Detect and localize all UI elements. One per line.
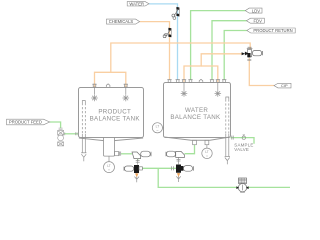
clamp below CIP valve bbox=[247, 59, 251, 60]
spray ball water left bbox=[181, 83, 188, 97]
spray ball product right bbox=[123, 87, 130, 101]
svg-text:LT: LT bbox=[205, 150, 209, 154]
svg-text:BALANCE TANK: BALANCE TANK bbox=[90, 116, 141, 123]
nozzle water tank bottom outlet bbox=[193, 140, 197, 144]
drain arrow water valve bbox=[178, 173, 180, 179]
valve water outlet upper bbox=[166, 151, 185, 157]
wire chemicals supply (orange) bbox=[140, 22, 170, 80]
level leg water tank (dashed) bbox=[225, 97, 230, 157]
wire sample valve line (green) bbox=[231, 138, 255, 144]
tag CHEMICALS bbox=[107, 19, 140, 24]
drain arrow product valve bbox=[136, 173, 138, 179]
drain Y product valve bbox=[135, 177, 140, 183]
tank T2 water balance tank bbox=[164, 83, 231, 141]
vent water tank bbox=[199, 79, 203, 82]
svg-text:WATER: WATER bbox=[129, 1, 144, 6]
instrument circle product outlet bbox=[104, 156, 115, 173]
svg-text:CHEMICALS: CHEMICALS bbox=[109, 19, 134, 24]
tank T1 label bbox=[90, 108, 141, 122]
wire transfer line between outlet valves (green) bbox=[143, 167, 177, 169]
spray ball product left bbox=[91, 87, 98, 101]
wire outlet to flowmeter (green) bbox=[158, 168, 290, 187]
tag CIP bbox=[274, 83, 291, 88]
wire water supply (blue) bbox=[149, 4, 178, 80]
valve product outlet lower (mixproof) bbox=[124, 165, 142, 173]
wire water outlet drop (green) bbox=[185, 145, 195, 154]
wire product feed to tank (green) bbox=[64, 133, 78, 135]
wire FDV line (green) bbox=[212, 21, 246, 80]
tag PRODUCT FEED bbox=[7, 119, 50, 125]
nozzle product tank left spray bbox=[92, 84, 96, 87]
valve product outlet upper (seat valve with actuator) bbox=[132, 151, 151, 158]
svg-text:LDV: LDV bbox=[252, 8, 260, 13]
spray ball water right bbox=[215, 83, 222, 97]
valve V-CIP (vertical with actuator) bbox=[245, 47, 263, 57]
drain Y water leg bbox=[225, 158, 230, 165]
wire product outlet (green) bbox=[121, 153, 132, 155]
wire LDV line (green) bbox=[191, 11, 246, 80]
sample valve label bbox=[234, 142, 253, 152]
flowmeter FM1 bbox=[236, 178, 248, 192]
wire water tank spray branch (orange) bbox=[184, 54, 244, 83]
clamp water mid bbox=[177, 157, 181, 164]
svg-text:PRODUCT FEED: PRODUCT FEED bbox=[9, 120, 42, 125]
drain Y water valve bbox=[176, 176, 181, 182]
nozzle water tank bottom instrument bbox=[205, 140, 209, 148]
tag WATER bbox=[127, 1, 149, 6]
nozzles water tank top row bbox=[167, 80, 226, 83]
tank T2 label bbox=[170, 107, 221, 121]
wire CIP supply riser (orange) bbox=[249, 58, 274, 86]
wire product return line (green) bbox=[224, 31, 247, 81]
svg-text:CIP: CIP bbox=[281, 83, 288, 88]
svg-text:LT: LT bbox=[156, 125, 160, 129]
wire stub tee to mixproof (green) bbox=[137, 159, 139, 161]
vent product tank bbox=[106, 84, 110, 87]
tag PRODUCT RETURN bbox=[247, 28, 295, 33]
instrument LT water tank bbox=[152, 123, 164, 133]
nozzle product tank right spray bbox=[124, 84, 128, 87]
svg-text:PRODUCT RETURN: PRODUCT RETURN bbox=[253, 28, 292, 33]
instrument circle under water tank bbox=[202, 148, 212, 158]
wire product tank spray manifold (orange) bbox=[95, 72, 126, 87]
nozzle sample valve on tank wall bbox=[232, 136, 233, 140]
tag FDV bbox=[246, 18, 264, 23]
svg-text:VALVE: VALVE bbox=[234, 147, 249, 152]
valve V-water (on blue riser) bbox=[172, 7, 180, 20]
valve water outlet lower (mixproof) bbox=[172, 165, 194, 173]
sample valve symbol bbox=[242, 135, 245, 140]
level leg product tank (dashed) bbox=[81, 101, 86, 153]
outlet side fitting bbox=[114, 152, 120, 156]
svg-text:PRODUCT: PRODUCT bbox=[98, 108, 131, 115]
product outlet standpipe bbox=[104, 138, 115, 157]
svg-text:BALANCE TANK: BALANCE TANK bbox=[170, 114, 221, 121]
clamp product mid bbox=[136, 159, 140, 165]
tag LDV bbox=[245, 8, 262, 13]
tank T1 product balance tank bbox=[79, 88, 144, 141]
drain Y product leg bbox=[81, 154, 86, 161]
flow arrow into CIP valve bbox=[242, 52, 246, 55]
wire product feed line (green) bbox=[50, 122, 61, 128]
valve V-chemicals (on orange riser) bbox=[163, 28, 171, 38]
svg-text:LT: LT bbox=[107, 164, 111, 168]
wire CIP main header (orange) bbox=[111, 43, 250, 72]
valve V-product-feed stack bbox=[58, 128, 77, 146]
svg-text:FDV: FDV bbox=[254, 18, 263, 23]
